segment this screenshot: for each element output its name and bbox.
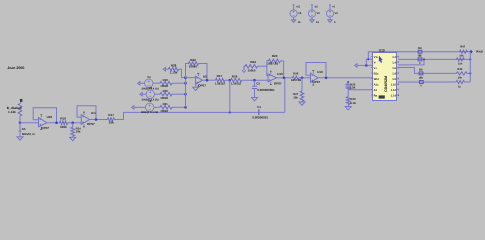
svg-text:1.14: 1.14 [391, 94, 397, 97]
svg-text:SINE(0 0.4 3k): SINE(0 0.4 3k) [141, 111, 158, 114]
ground [19, 133, 21, 137]
svg-text:1.59152: 1.59152 [231, 82, 242, 86]
element D6 on row3 [419, 72, 423, 75]
svg-text:1.4: 1.4 [392, 61, 396, 64]
svg-text:R47: R47 [460, 46, 465, 49]
svg-text:5: 5 [334, 21, 336, 24]
ladder row3 wire jog [398, 68, 456, 74]
svg-text:5: 5 [398, 78, 400, 81]
wire [19, 116, 21, 123]
resistor R40 row1 [460, 50, 468, 53]
svg-text:A1: A1 [374, 89, 378, 92]
wire [299, 77, 311, 79]
wire [179, 69, 186, 77]
svg-text:+5: +5 [332, 5, 336, 8]
svg-text:C5: C5 [256, 81, 260, 85]
svg-text:8: 8 [398, 94, 400, 97]
svg-text:V1+: V1+ [374, 56, 379, 59]
net flag arrow at R24 left [244, 65, 245, 67]
wire U5 output [203, 79, 216, 81]
element D5 on row2 [418, 58, 422, 61]
resistor R22 100k0 feedback [186, 64, 189, 78]
svg-text:1k4: 1k4 [458, 63, 463, 66]
wire [67, 122, 81, 124]
svg-text:10k: 10k [459, 54, 464, 57]
svg-text:100k0: 100k0 [248, 69, 256, 73]
wire to second pin [365, 64, 368, 67]
net flag MGVM_in [19, 131, 22, 133]
source row1 V4 [138, 81, 140, 85]
ground [328, 20, 332, 23]
supply source V5 [293, 4, 295, 6]
IC U19 internal arrow [379, 56, 383, 63]
svg-text:R28: R28 [171, 63, 177, 67]
svg-text:10k: 10k [109, 121, 114, 125]
svg-text:OP07: OP07 [274, 81, 282, 85]
op-amp U16 [39, 117, 47, 126]
svg-text:R5: R5 [22, 127, 26, 131]
svg-text:R42: R42 [457, 68, 462, 71]
svg-text:V-: V- [374, 61, 377, 64]
port flag row0 [163, 67, 165, 71]
resistor R26 1857.85 series [292, 76, 298, 79]
IC U19 body [373, 53, 397, 101]
svg-text:-15: -15 [314, 5, 318, 8]
svg-text:U16: U16 [47, 115, 53, 119]
svg-text:C4: C4 [257, 105, 261, 109]
capacitor C5 branch [254, 80, 256, 86]
svg-text:100k0: 100k0 [160, 96, 168, 100]
op-amp U12 [81, 115, 90, 125]
summing bus wire [185, 78, 187, 108]
ladder bus vertical [469, 52, 471, 82]
svg-text:+15: +15 [296, 5, 301, 8]
svg-text:D6: D6 [419, 69, 423, 72]
wire [20, 102, 22, 103]
wire junction J [258, 66, 269, 75]
svg-text:1.8: 1.8 [392, 72, 396, 75]
svg-text:R24: R24 [250, 60, 256, 64]
divider resistor R30 9.1K [347, 90, 349, 97]
svg-text:OP07: OP07 [312, 80, 320, 84]
svg-text:OP07: OP07 [87, 122, 95, 126]
svg-text:1.6: 1.6 [392, 67, 396, 70]
resistor R24 100k0 [245, 65, 258, 69]
svg-text:B1c: B1c [374, 72, 379, 75]
resistor R_dbabs0 1.1k [18, 104, 22, 117]
svg-text:R20: R20 [163, 89, 169, 93]
svg-text:1.9: 1.9 [392, 78, 396, 81]
feedback wire U16 [33, 108, 56, 123]
node A junction [19, 122, 22, 125]
svg-text:20k: 20k [76, 130, 81, 134]
svg-text:V8: V8 [148, 99, 152, 103]
svg-text:4: 4 [398, 72, 400, 75]
wire [90, 119, 108, 121]
divider resistor R25 2.5K [347, 82, 349, 85]
svg-text:CD4052M: CD4052M [384, 76, 388, 92]
svg-text:100k: 100k [60, 125, 67, 129]
svg-text:R22: R22 [190, 58, 196, 62]
svg-text:9.1K: 9.1K [350, 101, 356, 105]
svg-text:2: 2 [398, 61, 400, 64]
resistor R20 100k0 [155, 93, 161, 95]
resistor R43 row4 [456, 80, 465, 83]
wire U10 output [277, 77, 293, 79]
element D4 on row1 [418, 50, 422, 53]
svg-text:U5: U5 [203, 74, 207, 78]
svg-text:6: 6 [398, 83, 400, 86]
svg-text:R17: R17 [217, 74, 223, 78]
svg-text:0.000000001: 0.000000001 [257, 88, 275, 92]
Vout node [470, 50, 473, 53]
svg-text:R19: R19 [163, 78, 169, 82]
svg-text:D4: D4 [418, 47, 422, 50]
svg-text:Jean 2000: Jean 2000 [7, 66, 24, 70]
resistor R17b 10k [108, 118, 115, 122]
wire [47, 122, 60, 124]
node B junction [71, 122, 74, 125]
svg-text:100k0: 100k0 [189, 64, 198, 68]
supply source V9 [329, 4, 331, 6]
svg-text:OP07: OP07 [41, 126, 49, 130]
svg-text:D5: D5 [418, 55, 422, 58]
wire to bottom bus [115, 112, 230, 119]
wire U13 output to U19 [318, 77, 373, 79]
node Y junction [253, 79, 256, 82]
svg-text:V9: V9 [335, 12, 339, 15]
node X junction [229, 79, 232, 82]
ladder row4 wire y82 [398, 81, 456, 83]
svg-text:2.5K: 2.5K [350, 86, 356, 90]
ground [72, 136, 74, 137]
svg-text:R16: R16 [60, 117, 66, 121]
svg-text:U13: U13 [317, 70, 323, 74]
supply source V6 [311, 4, 313, 6]
svg-text:1.13k: 1.13k [170, 70, 178, 74]
wire [72, 123, 74, 127]
element D7 on row4 [419, 81, 423, 84]
ladder row3a wire joining row2 [398, 59, 424, 65]
svg-text:V4: V4 [147, 75, 151, 79]
svg-text:15: 15 [298, 21, 301, 24]
wire over IC to ladder top [368, 52, 471, 60]
resistor R41 row2 [456, 58, 464, 61]
svg-text:10k: 10k [458, 76, 463, 79]
svg-text:100k0: 100k0 [160, 84, 168, 88]
resistor R23 1857.85 [267, 61, 269, 66]
svg-text:R18: R18 [232, 75, 238, 79]
resistor R42 row3 [456, 72, 467, 75]
svg-text:R26: R26 [293, 72, 299, 76]
svg-text:W1c: W1c [374, 78, 380, 81]
wire [281, 61, 284, 78]
wire C4 loop right [284, 78, 286, 113]
ladder row2 wire y59.4 [398, 58, 470, 60]
op-amp U13 buffer [311, 73, 319, 82]
svg-text:R21: R21 [163, 102, 169, 106]
ground [252, 98, 258, 101]
svg-text:0: 0 [420, 85, 422, 88]
svg-text:A1c: A1c [374, 83, 379, 86]
ground [310, 20, 314, 23]
ground [301, 100, 303, 103]
svg-text:0.00000001: 0.00000001 [252, 115, 268, 119]
svg-text:1: 1 [398, 56, 400, 59]
svg-text:1857.85: 1857.85 [267, 61, 278, 65]
svg-text:R17: R17 [108, 113, 114, 117]
svg-text:1.14k: 1.14k [8, 110, 16, 114]
op-amp U10 [268, 74, 277, 82]
svg-text:V6: V6 [149, 86, 153, 90]
svg-text:7: 7 [398, 89, 400, 92]
svg-text:U10: U10 [277, 72, 283, 76]
feedback wire U13 [306, 63, 326, 78]
svg-text:1.59152: 1.59152 [215, 81, 226, 85]
wire [166, 68, 169, 70]
svg-text:1.2: 1.2 [392, 56, 396, 59]
wire C4 loop left leg [229, 80, 231, 112]
svg-text:U19: U19 [379, 49, 385, 53]
svg-text:10k: 10k [293, 96, 298, 100]
svg-text:15: 15 [316, 21, 319, 24]
wire [225, 79, 231, 81]
svg-text:Vout: Vout [476, 49, 484, 53]
wire divider tap to U19 [348, 88, 372, 90]
svg-text:V5: V5 [298, 12, 302, 15]
ground [291, 20, 295, 23]
ground [347, 105, 349, 107]
svg-text:1k: 1k [458, 85, 461, 88]
svg-text:R23: R23 [272, 54, 278, 58]
wire [199, 64, 208, 81]
feedback wire U12 [77, 106, 96, 120]
port flag into U19 [355, 64, 357, 68]
svg-text:100k0: 100k0 [160, 109, 168, 113]
svg-text:1857.85: 1857.85 [291, 78, 302, 82]
resistor R19 100k0 [153, 82, 160, 84]
svg-text:D7: D7 [419, 77, 423, 80]
svg-text:Ra: Ra [374, 94, 378, 97]
resistor R16 100k [60, 121, 68, 125]
source row3 V8 [132, 106, 134, 110]
IC U19 dark tag bottom [379, 95, 385, 98]
resistor R18 1.59152 [231, 78, 243, 82]
op-amp U5 [196, 76, 203, 84]
resistor R24b 20k [71, 127, 75, 136]
resistor R17 1.59152 [216, 78, 226, 82]
source row2 V6 [140, 92, 142, 96]
svg-text:1.12: 1.12 [391, 89, 397, 92]
node U13 input junction [301, 77, 304, 80]
wire [20, 122, 39, 124]
svg-text:MGVM_in: MGVM_in [22, 132, 35, 136]
input net label [20, 99, 23, 102]
wire [242, 79, 268, 81]
svg-text:V6: V6 [317, 12, 321, 15]
wire to U5 inverting input [186, 77, 196, 79]
capacitor C4 in bottom loop [230, 111, 285, 113]
svg-text:V+: V+ [374, 67, 378, 70]
ground at U5 non-inverting input [195, 84, 197, 87]
resistor R21 100k0 [154, 106, 160, 108]
svg-text:1.10: 1.10 [391, 83, 397, 86]
wire [19, 123, 21, 131]
divider net flag square [347, 81, 349, 83]
resistor R28 1.13k [169, 67, 179, 71]
resistor R27 10k to ground [301, 78, 303, 91]
